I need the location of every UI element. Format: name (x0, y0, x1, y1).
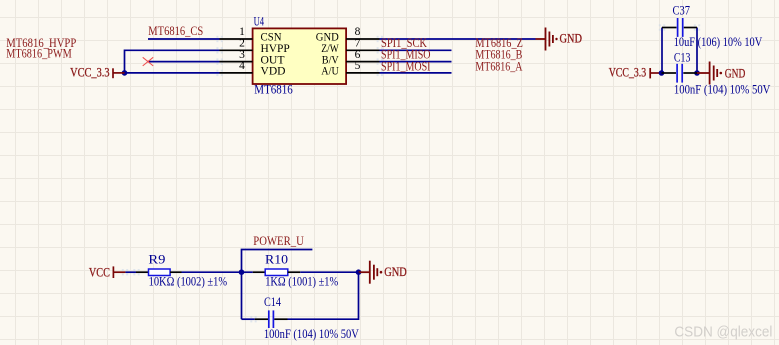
capacitor C37 plates (678, 18, 683, 37)
capacitor C13 plates (677, 64, 682, 83)
connection hint marks (122, 24, 700, 322)
pin 4 VDD (220, 72, 253, 74)
svg-text:GND: GND (384, 265, 407, 279)
wire top C37 right lead (684, 27, 697, 29)
pin 7 Z/W (346, 49, 379, 51)
capacitor C14 right lead (274, 318, 287, 320)
svg-text:U4: U4 (254, 15, 265, 29)
resistor R10 right lead (288, 271, 300, 273)
resistor R9 body (149, 269, 171, 276)
svg-text:SPI1_MOSI: SPI1_MOSI (381, 59, 431, 73)
pin 2 HVPP (220, 49, 253, 51)
svg-text:1KΩ (1001) ±1%: 1KΩ (1001) ±1% (265, 275, 338, 289)
power port VCC_3.3 left (113, 68, 125, 78)
svg-text:R9: R9 (148, 253, 165, 267)
power port GND top (536, 28, 553, 51)
wire top C37 left lead (662, 27, 677, 29)
power port VCC_3.3 right (650, 68, 661, 78)
svg-text:POWER_U: POWER_U (253, 234, 303, 248)
svg-text:MT6816_A: MT6816_A (475, 59, 522, 73)
svg-text:GND: GND (316, 32, 339, 44)
wire junction to R10 (242, 271, 253, 273)
junction dot GND node (356, 269, 362, 275)
svg-text:VCC_3.3: VCC_3.3 (70, 66, 110, 80)
svg-text:7: 7 (355, 38, 361, 50)
svg-text:4: 4 (239, 60, 245, 72)
svg-text:B/V: B/V (322, 54, 340, 66)
wire POWER_U riser (242, 250, 313, 320)
resistor R9 left lead (136, 271, 149, 273)
wire OUT (148, 61, 220, 63)
svg-text:100nF (104) 10% 50V: 100nF (104) 10% 50V (674, 82, 771, 96)
svg-text:OUT: OUT (261, 54, 285, 66)
capacitor C14 left lead (255, 318, 268, 320)
wire R10 to GND junction (300, 271, 358, 273)
pin 5 A/U (346, 72, 379, 74)
wire right riser C37 (696, 28, 698, 74)
C13 right lead (683, 72, 697, 74)
wire C14 left horizontal (242, 318, 255, 320)
svg-text:3: 3 (239, 49, 245, 61)
svg-text:6: 6 (355, 49, 361, 61)
svg-text:C37: C37 (673, 4, 691, 18)
svg-text:2: 2 (239, 38, 245, 50)
wire VCC to R9 (125, 271, 136, 273)
wire CSN net MT6816_CS (148, 38, 220, 40)
no-ERC marker X on OUT wire (143, 57, 154, 66)
svg-text:VCC_3.3: VCC_3.3 (609, 66, 647, 80)
resistor R10 body (265, 269, 288, 276)
power port GND bottom (359, 261, 378, 284)
op IC U4 MT6816 body (253, 28, 347, 84)
svg-text:VDD: VDD (261, 66, 286, 78)
svg-text:1: 1 (239, 26, 245, 38)
svg-text:GND: GND (560, 32, 583, 46)
junction dot POWER_U node (239, 269, 245, 275)
power port VCC bottom (113, 266, 125, 278)
junction dot left C13 (659, 70, 665, 76)
svg-text:5: 5 (355, 60, 361, 72)
pin 1 CSN (220, 38, 253, 40)
svg-text:C13: C13 (674, 51, 691, 65)
svg-text:MT6816_CS: MT6816_CS (148, 24, 203, 38)
junction dot right C13 (694, 70, 700, 76)
wire C14 right riser (288, 272, 359, 319)
svg-text:MT6816_PWM: MT6816_PWM (6, 46, 72, 60)
pin 6 B/V (346, 61, 379, 63)
junction dot at VCC_3.3 node (122, 70, 128, 76)
capacitor C14 plates (269, 310, 274, 328)
svg-text:100nF (104) 10% 50V: 100nF (104) 10% 50V (264, 327, 359, 341)
svg-text:A/U: A/U (321, 66, 339, 78)
C13 left lead (662, 72, 677, 74)
pin 8 GND (346, 38, 379, 40)
svg-text:CSN: CSN (261, 32, 283, 44)
svg-text:R10: R10 (265, 253, 288, 267)
wire HVPP vertical riser (125, 50, 220, 73)
svg-text:C14: C14 (264, 295, 282, 309)
resistor R9 right lead (170, 271, 181, 273)
pin 3 OUT (220, 61, 253, 63)
svg-text:CSDN @qlexcel: CSDN @qlexcel (674, 325, 772, 341)
wire left riser C37 (661, 28, 663, 74)
wire R9 to junction (182, 271, 242, 273)
wire SPI1_MISO (380, 61, 452, 63)
wire SPI1_MOSI (380, 72, 452, 74)
svg-text:8: 8 (355, 26, 361, 38)
power port GND right (697, 62, 717, 85)
wire VDD (125, 72, 220, 74)
svg-text:10KΩ (1002) ±1%: 10KΩ (1002) ±1% (149, 275, 228, 289)
svg-text:HVPP: HVPP (261, 43, 290, 55)
svg-text:10uF (106) 10% 10V: 10uF (106) 10% 10V (674, 35, 763, 49)
resistor R10 left lead (253, 271, 265, 273)
svg-text:Z/W: Z/W (321, 43, 339, 55)
wire SPI1_SCK (380, 49, 452, 51)
svg-text:VCC: VCC (89, 266, 110, 280)
svg-text:MT6816: MT6816 (254, 83, 292, 97)
wire pin8 to GND (380, 38, 536, 40)
svg-text:GND: GND (725, 66, 746, 80)
